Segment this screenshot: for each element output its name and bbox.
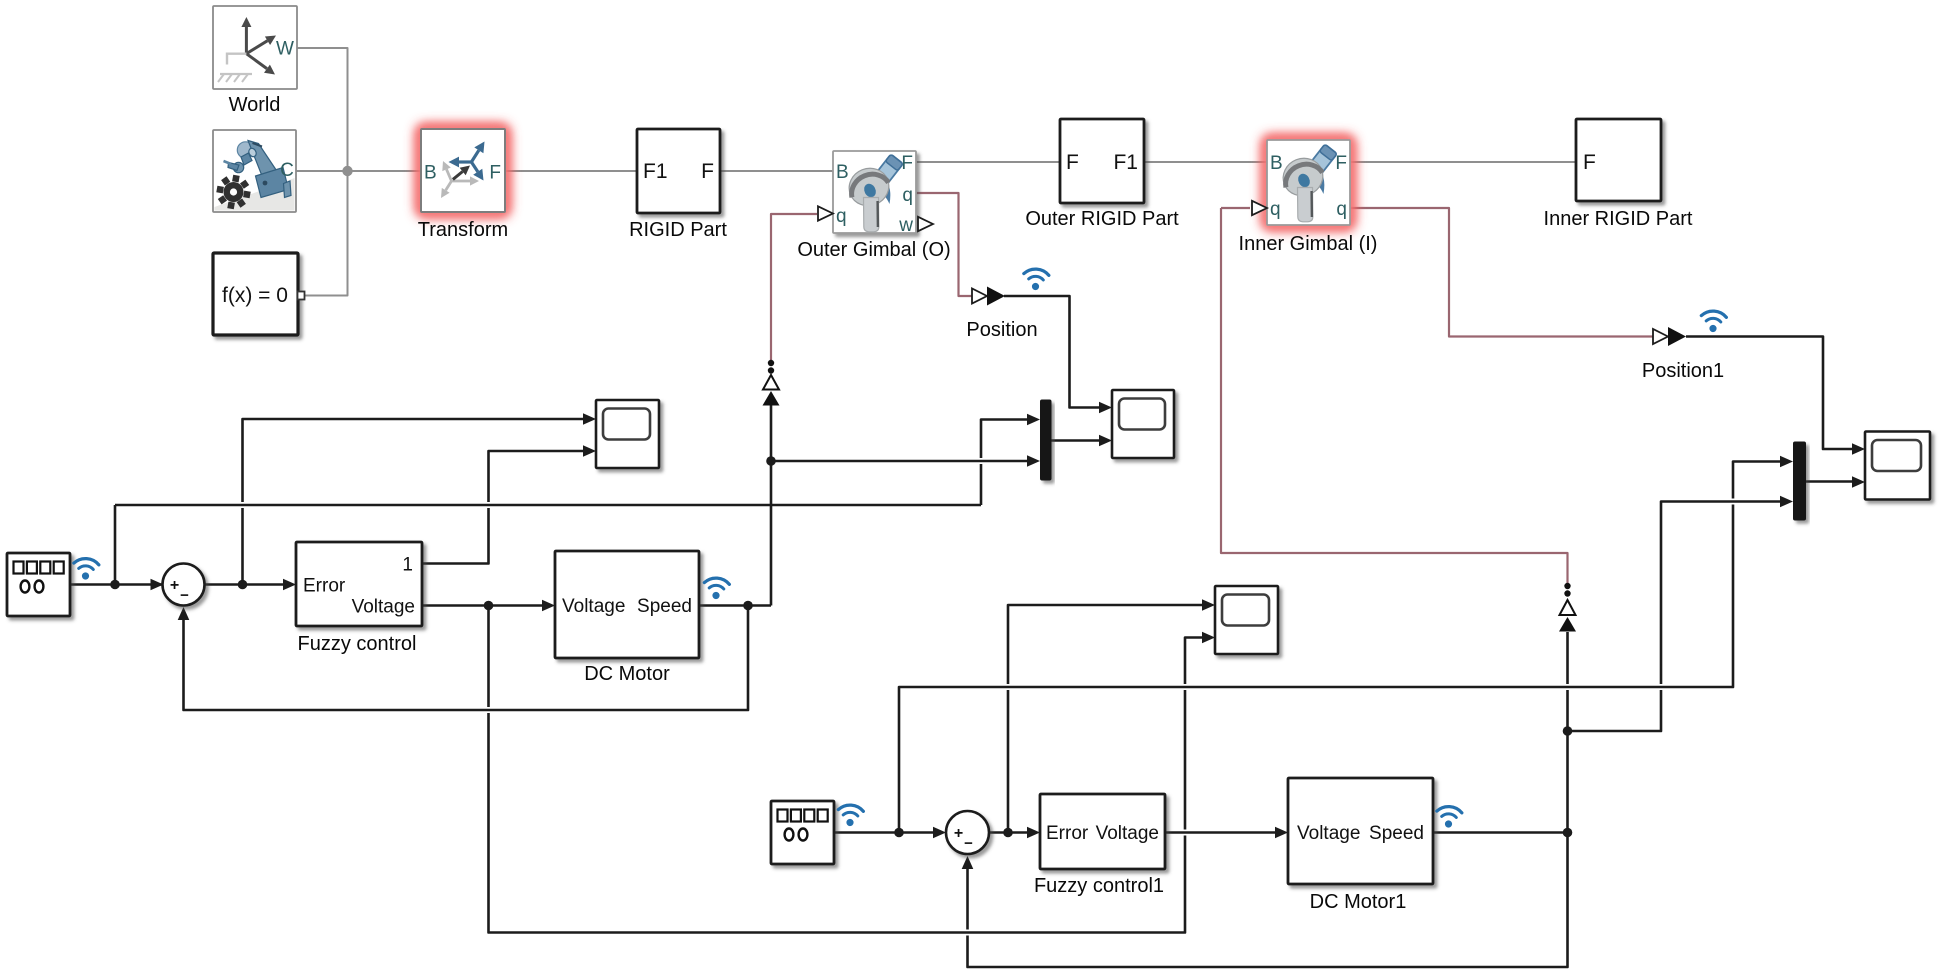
svg-text:Transform: Transform [418,219,508,241]
wire Signal Builder to Sum [70,583,163,586]
junction dot reference loop1 [110,580,120,590]
block Signal Builder loop2 [771,801,834,864]
wire Transform F to RIGID Part F1 [505,170,637,172]
sum block loop2 [946,811,989,854]
block f(x)=0 solver [213,253,305,335]
svg-text:F: F [489,163,501,184]
wire Sum1 output to Fuzzy control1 [989,831,1027,834]
block Mechanism Configuration [213,130,296,212]
wire Fuzzy control1 Voltage to DC Motor1 [1165,831,1275,834]
svg-text:Error: Error [303,576,346,597]
wire Inner Gimbal q output to Position1 port [1350,208,1653,337]
svg-text:B: B [836,162,849,183]
svg-text:F: F [701,160,714,183]
svg-text:Error: Error [1046,823,1089,844]
junction dot error loop2 [1003,828,1013,838]
mux Mux1 [1040,400,1052,481]
wire Mux output to Scope input 2 [1052,439,1100,442]
wire Position1 to Scope input 1 [1686,337,1852,450]
svg-text:C: C [280,160,294,181]
wire Inner Gimbal q input feed [1221,207,1250,209]
scope Scope3 [1215,586,1278,654]
wire reference loop2 to Mux1 input 1 [899,505,1733,833]
svg-text:Fuzzy control: Fuzzy control [298,633,417,655]
wire Fuzzy control port 1 to Scope1 input 2 [422,508,489,564]
wire DC Motor Speed output [699,604,771,607]
wire Mechanism Configuration C port to junction [296,170,348,172]
block Transform [421,129,505,212]
wire speed loop2 to Mux1 input 2 [1568,690,1662,731]
svg-text:−: − [180,587,189,604]
PS-Simulink converter loop1 [763,360,780,406]
wifi badge Position1 [1700,310,1726,333]
block Fuzzy control1 [1040,794,1165,869]
glow of Transform block [415,123,511,218]
junction dot frame net [342,166,352,176]
svg-text:w: w [898,215,913,236]
svg-text:Speed: Speed [637,596,692,617]
svg-text:Inner Gimbal (I): Inner Gimbal (I) [1239,233,1378,255]
block World [213,6,297,89]
svg-text:q: q [902,185,913,206]
block Inner RIGID Part [1576,119,1661,201]
svg-text:Voltage: Voltage [352,597,415,618]
svg-text:Inner RIGID Part: Inner RIGID Part [1544,208,1693,230]
svg-text:RIGID Part: RIGID Part [629,219,727,241]
svg-text:Voltage: Voltage [1297,823,1360,844]
svg-text:1: 1 [402,555,413,576]
block Outer Gimbal (O) [833,151,916,236]
glow of Inner Gimbal block [1261,134,1356,231]
svg-text:F1: F1 [643,160,668,183]
wifi badge Position [1023,268,1049,291]
svg-text:q: q [1336,199,1347,220]
output arrow Outer Gimbal w [918,217,933,231]
svg-text:F: F [1583,151,1596,174]
PS-Simulink converter loop2 [1559,583,1576,632]
junction dot speed loop2 branch [1563,726,1573,736]
wire Outer RIGID Part F1 to Inner Gimbal B [1144,161,1267,163]
svg-text:W: W [276,39,294,60]
svg-text:B: B [1270,153,1283,174]
svg-text:DC Motor1: DC Motor1 [1310,891,1407,913]
wire RIGID Part F to Outer Gimbal B [720,170,833,172]
wire junction to Transform B port [348,170,422,172]
svg-text:f(x) = 0: f(x) = 0 [222,284,288,307]
port Position1 [1653,327,1686,346]
block Fuzzy control [296,542,422,626]
svg-text:+: + [954,825,963,842]
wire speed up to PS converter [770,464,773,606]
junction dot speed loop1 [743,601,753,611]
svg-text:Voltage: Voltage [1096,823,1159,844]
input arrow Outer Gimbal q [818,206,833,220]
svg-text:Speed: Speed [1369,823,1424,844]
svg-text:−: − [964,835,973,852]
svg-text:F: F [1335,153,1347,174]
wifi badge DC Motor [703,577,729,600]
wire error loop2 to Scope input 1 [1007,690,1010,833]
svg-text:Outer Gimbal (O): Outer Gimbal (O) [797,239,950,261]
svg-text:q: q [836,206,847,227]
wifi badge Signal Builder loop1 [73,558,99,581]
svg-text:Fuzzy control1: Fuzzy control1 [1034,875,1164,897]
wire Signal Builder1 to Sum1 [834,831,933,834]
scope Scope1 [596,400,659,468]
wire World W port to junction [297,48,348,171]
svg-text:F1: F1 [1113,151,1138,174]
svg-text:World: World [229,94,281,116]
sum block loop1 [163,564,205,606]
wire Sum output to Fuzzy control Error [205,583,284,586]
svg-text:+: + [170,577,179,594]
block Outer RIGID Part [1060,119,1144,203]
wire Outer Gimbal q output to Position port [916,193,972,296]
wire Mux1 output to Scope input 2 [1806,480,1852,483]
wire Fuzzy control Voltage to DC Motor [422,604,542,607]
scope Scope2 [1112,390,1174,458]
block RIGID Part [637,129,720,213]
block Signal Builder loop1 [7,553,70,616]
block DC Motor [555,551,699,658]
junction dot voltage loop1 [484,601,494,611]
wire Position to Scope input 1 [1004,296,1099,408]
wire speed loop2 feedback to Sum1 [968,833,1568,968]
junction dot speed to mux [766,456,776,466]
port Position [972,287,1005,306]
wire speed loop2 up to PS converter [1566,734,1569,833]
wire reference to Mux input 1 [114,505,117,585]
wire PS actuation to Outer Gimbal q input [771,214,817,363]
wire speed feedback to Sum [184,606,749,711]
block DC Motor1 [1288,778,1433,884]
block Inner Gimbal (I) [1267,140,1350,225]
svg-text:F: F [1066,151,1079,174]
wifi badge Signal Builder loop2 [837,804,863,827]
mux Mux2 [1793,442,1806,521]
wifi badge DC Motor1 [1436,806,1462,829]
wire Inner Gimbal F to Inner RIGID Part F [1350,161,1576,163]
svg-text:q: q [1270,199,1281,220]
svg-text:Outer RIGID Part: Outer RIGID Part [1025,208,1179,230]
svg-text:F: F [901,153,913,174]
scope Scope4 [1865,432,1930,500]
wire DC Motor1 Speed output [1433,831,1568,834]
wire junction down to f(x)=0 port [304,171,348,296]
wire voltage down to bottom bus [487,606,490,708]
junction dot reference loop2 [894,828,904,838]
junction dot speed loop2 [1563,828,1573,838]
input arrow Inner Gimbal q [1252,201,1267,215]
svg-text:B: B [424,163,437,184]
svg-text:Position1: Position1 [1642,360,1724,382]
svg-text:Voltage: Voltage [562,596,625,617]
junction dot error loop1 [238,580,248,590]
wire error to Scope1 input 1 [241,508,244,585]
svg-text:DC Motor: DC Motor [584,663,670,685]
wire speed to Mux input 2 [771,460,1027,463]
svg-text:Position: Position [966,319,1037,341]
wire Outer Gimbal F to Outer RIGID Part F [916,161,1060,163]
